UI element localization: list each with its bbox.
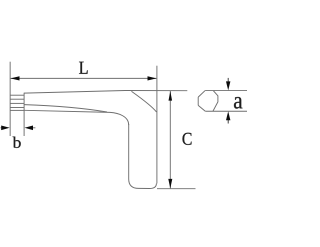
hex key tip hatch line 2 [10,102,24,104]
hex key shaft top edge with C reference extension [24,91,187,94]
hex key outer corner arc [132,91,157,112]
hex bar chamfer boundary polyline [213,91,218,112]
b right extension line [23,110,25,136]
hex key tip hatch line 1 [10,98,24,100]
hex key tip block right edge [23,93,25,111]
b left arrow tail [1,127,5,129]
b dimension left arrowhead (outside, pointing right) [1,126,10,131]
hex bar bottom edge [205,110,247,112]
hex key shaft bottom edge into inner corner arc [24,110,129,125]
b right arrow tail [31,127,36,129]
b dimension right arrowhead (outside, pointing left) [25,126,34,131]
hex key tip block top line [10,94,24,96]
hex key tip block bottom line [10,109,24,111]
L dimension line [11,77,157,79]
a dimension bottom arrowhead (pointing up) [226,111,230,120]
hex key tip hatch line 3 [10,107,24,109]
L dimension right arrowhead [148,76,157,80]
L dimension left arrowhead [11,76,20,80]
a top arrow stem [227,78,229,83]
a dimension top arrowhead (pointing down) [226,81,230,90]
hex bar bottom-left chamfer diagonal [198,105,205,111]
hex bar left edge [197,97,199,105]
hex bar top-left chamfer diagonal [198,91,205,98]
C bottom reference line [157,188,196,190]
C dimension top arrowhead (pointing up) [169,91,173,101]
label b [13,137,21,148]
C dimension line [169,91,171,188]
hex key arm bottom rounded cap [129,179,157,189]
hex key arm inner (left) edge [128,124,130,179]
label a [234,97,242,109]
label L [79,62,88,74]
L left extension line [9,62,11,136]
hex key arm outer (right) edge with L extension above [156,66,158,184]
label C [183,133,192,145]
C dimension bottom arrowhead (pointing down) [168,179,172,189]
hex key internal hex-edge line [24,105,107,112]
hex bar top edge [205,90,247,92]
a bottom arrow stem [227,118,229,124]
